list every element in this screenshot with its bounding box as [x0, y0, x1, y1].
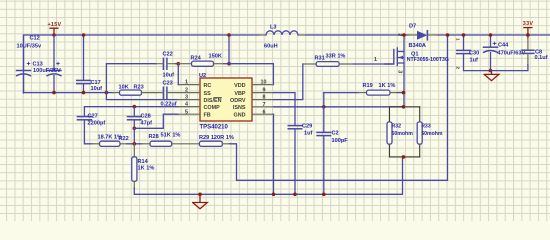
node RC [177, 62, 181, 66]
node FB node [133, 142, 137, 146]
svg-text:1: 1 [374, 57, 377, 63]
resistor R31 [303, 63, 316, 65]
wire GND pin down [273, 114, 275, 194]
wire VDD riser [228, 35, 230, 64]
node out gnd [489, 69, 493, 73]
wire VDD to pin10 [229, 64, 273, 85]
node pin6 gnd [272, 193, 276, 197]
svg-text:R28: R28 [149, 134, 159, 140]
wire R29 to output [230, 35, 448, 180]
node sense top [402, 105, 406, 109]
wire SS rail [24, 92, 114, 94]
pin 3 DIS/EN [178, 99, 200, 101]
node SS node [105, 91, 109, 95]
wire top rail mid [306, 34, 408, 36]
resistor R22 [92, 143, 100, 145]
node rail tap [227, 33, 231, 37]
capacitor C12 [53, 35, 55, 93]
svg-text:10uf: 10uf [91, 86, 103, 92]
svg-text:60uH: 60uH [264, 44, 278, 50]
svg-text:50mohm: 50mohm [421, 131, 443, 137]
wire ISNS [274, 106, 404, 108]
wire RC to pin1 [177, 64, 179, 85]
svg-text:R14: R14 [138, 159, 149, 165]
svg-text:10K: 10K [119, 84, 129, 90]
pin 8 ODRV [252, 99, 274, 101]
sense resistors R32 R33 [390, 107, 420, 157]
wire FB net [134, 114, 178, 128]
node +33V [526, 33, 530, 37]
wire COMP net [84, 107, 178, 117]
resistor R28 [142, 143, 150, 145]
node C29 gnd [293, 193, 297, 197]
node C17 bottom [82, 91, 86, 95]
wire top +15V rail [24, 35, 260, 93]
wire drain [403, 35, 405, 52]
svg-text:1K 1%: 1K 1% [138, 166, 155, 172]
resistor R23 [113, 92, 120, 94]
node C12 bottom [52, 91, 56, 95]
svg-text:1uf: 1uf [470, 57, 479, 63]
svg-text:100pF: 100pF [332, 138, 349, 144]
svg-text:VDD: VDD [234, 83, 245, 89]
wire ground rail [134, 157, 402, 194]
svg-text:C23: C23 [163, 80, 173, 86]
pin 10 VDD [252, 84, 274, 86]
svg-text:R32: R32 [392, 124, 402, 130]
svg-text:2: 2 [456, 67, 461, 70]
svg-text:NTF3055-100T3G: NTF3055-100T3G [407, 57, 449, 63]
power +33V [524, 27, 532, 29]
svg-text:2: 2 [185, 88, 188, 94]
capacitor C13 [23, 35, 25, 93]
wire top rail right [438, 34, 550, 36]
capacitor C30 [463, 35, 465, 50]
pin 2 SS [178, 92, 200, 94]
diode D7 B340A [408, 34, 417, 36]
node sense bottom [402, 155, 406, 159]
svg-text:51K 1%: 51K 1% [161, 132, 181, 138]
wire VBP to C29 [274, 93, 296, 126]
wire RC loop [106, 64, 156, 93]
svg-text:C12: C12 [30, 36, 40, 42]
svg-text:D7: D7 [409, 23, 416, 29]
capacitor C2 [323, 107, 325, 132]
node C44 top [489, 33, 493, 37]
capacitor C8 [527, 35, 529, 39]
node C28 bottom [133, 127, 137, 131]
svg-text:33V: 33V [523, 21, 534, 27]
power +15V [50, 27, 58, 29]
node drain [402, 33, 406, 37]
svg-text:L3: L3 [270, 25, 277, 31]
svg-text:R29 120R 1%: R29 120R 1% [199, 135, 234, 141]
wire DIS/EN from SS node [106, 93, 178, 100]
svg-text:RC: RC [204, 83, 212, 89]
svg-text:1: 1 [456, 38, 461, 41]
svg-text:FB: FB [204, 113, 211, 119]
resistor R14 [133, 144, 135, 157]
pin 5 FB [178, 113, 200, 115]
capacitor C27 [77, 116, 91, 118]
node VDD node [227, 62, 231, 66]
pin 4 COMP [178, 106, 200, 108]
ground output [484, 71, 499, 81]
node C17 top [82, 33, 86, 37]
node C2 gnd [322, 193, 326, 197]
svg-text:C2: C2 [332, 130, 339, 136]
node C30 top [462, 33, 466, 37]
svg-text:1K 1%: 1K 1% [379, 83, 396, 89]
svg-text:3: 3 [396, 70, 402, 73]
IC U2 TPS40210 [200, 78, 252, 121]
svg-text:100uF/35V: 100uF/35V [33, 68, 61, 74]
svg-text:R24: R24 [191, 56, 202, 62]
wire gate [354, 63, 392, 65]
svg-text:10: 10 [261, 80, 267, 86]
inductor L3 [259, 34, 266, 36]
node +15V rail [52, 33, 56, 37]
svg-text:C44: C44 [498, 42, 509, 48]
svg-text:150K: 150K [209, 54, 222, 60]
pin 6 GND [252, 113, 274, 115]
svg-text:DIS/EN: DIS/EN [204, 98, 222, 104]
svg-text:R33: R33 [421, 124, 431, 130]
svg-text:B340A: B340A [409, 43, 426, 49]
svg-text:C27: C27 [88, 113, 98, 119]
resistor R19 [323, 93, 325, 107]
resistor R24 [178, 63, 191, 65]
svg-text:4: 4 [185, 102, 188, 108]
svg-text:8: 8 [263, 95, 266, 101]
svg-text:VBP: VBP [234, 91, 245, 97]
svg-text:6: 6 [263, 109, 266, 115]
svg-text:3: 3 [185, 95, 188, 101]
capacitor C17 [83, 35, 85, 93]
svg-text:TPS40210: TPS40210 [200, 125, 229, 131]
svg-text:C13: C13 [33, 61, 43, 67]
svg-text:COMP: COMP [204, 105, 221, 111]
svg-text:C29: C29 [302, 124, 312, 130]
svg-text:R19: R19 [363, 83, 373, 89]
svg-text:10uf: 10uf [163, 73, 175, 79]
svg-text:50mohm: 50mohm [392, 131, 414, 137]
svg-text:2200pf: 2200pf [88, 121, 106, 127]
capacitor C22 [163, 58, 167, 69]
svg-text:9: 9 [263, 88, 266, 94]
svg-text:ISNS: ISNS [233, 105, 246, 111]
capacitor C44 [490, 35, 492, 47]
node Vout rail [446, 33, 450, 37]
svg-text:33R 1%: 33R 1% [326, 53, 346, 59]
node COMP [133, 105, 137, 109]
svg-text:C28: C28 [141, 113, 151, 119]
svg-text:10UF/35v: 10UF/35v [17, 43, 42, 49]
svg-text:R23: R23 [134, 85, 144, 91]
svg-text:2: 2 [396, 33, 402, 36]
capacitor C29 [288, 125, 302, 127]
svg-text:5: 5 [185, 109, 188, 115]
svg-text:R31: R31 [315, 55, 325, 61]
svg-text:47pf: 47pf [141, 121, 153, 127]
wire ODRV to R31 [274, 64, 303, 100]
svg-text:1: 1 [185, 80, 188, 86]
wire source [403, 63, 405, 107]
node ISNS node [322, 105, 326, 109]
capacitor C23 [163, 87, 167, 98]
pin 1 RC [178, 84, 200, 86]
svg-text:ODRV: ODRV [230, 98, 246, 104]
pin 7 ISNS [252, 106, 274, 108]
svg-text:R22: R22 [119, 136, 129, 142]
svg-text:1uf: 1uf [304, 130, 313, 136]
node R19 node [402, 91, 406, 95]
svg-text:0.1uf: 0.1uf [535, 55, 548, 61]
svg-text:C30: C30 [469, 51, 479, 57]
transistor Q1 [385, 50, 394, 65]
svg-text:7: 7 [263, 102, 266, 108]
node gnd tap [198, 193, 202, 197]
svg-text:SS: SS [204, 91, 212, 97]
svg-text:+15V: +15V [48, 22, 62, 28]
resistor R29 [172, 143, 200, 145]
svg-text:U2: U2 [199, 73, 206, 79]
svg-text:GND: GND [234, 113, 246, 119]
ground [193, 194, 208, 209]
svg-text:C22: C22 [163, 52, 173, 58]
pin 9 VBP [252, 92, 274, 94]
